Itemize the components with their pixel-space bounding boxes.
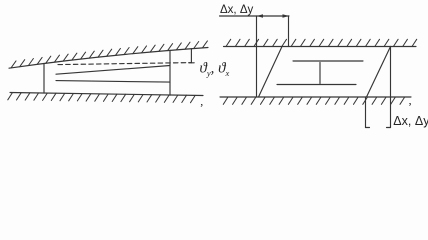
svg-text:,: , bbox=[200, 94, 203, 108]
svg-text:Δx, Δy: Δx, Δy bbox=[393, 114, 428, 128]
svg-text:ϑy, ϑx: ϑy, ϑx bbox=[200, 60, 230, 78]
svg-text:,: , bbox=[409, 93, 412, 107]
svg-text:Δx, Δy: Δx, Δy bbox=[220, 4, 254, 16]
